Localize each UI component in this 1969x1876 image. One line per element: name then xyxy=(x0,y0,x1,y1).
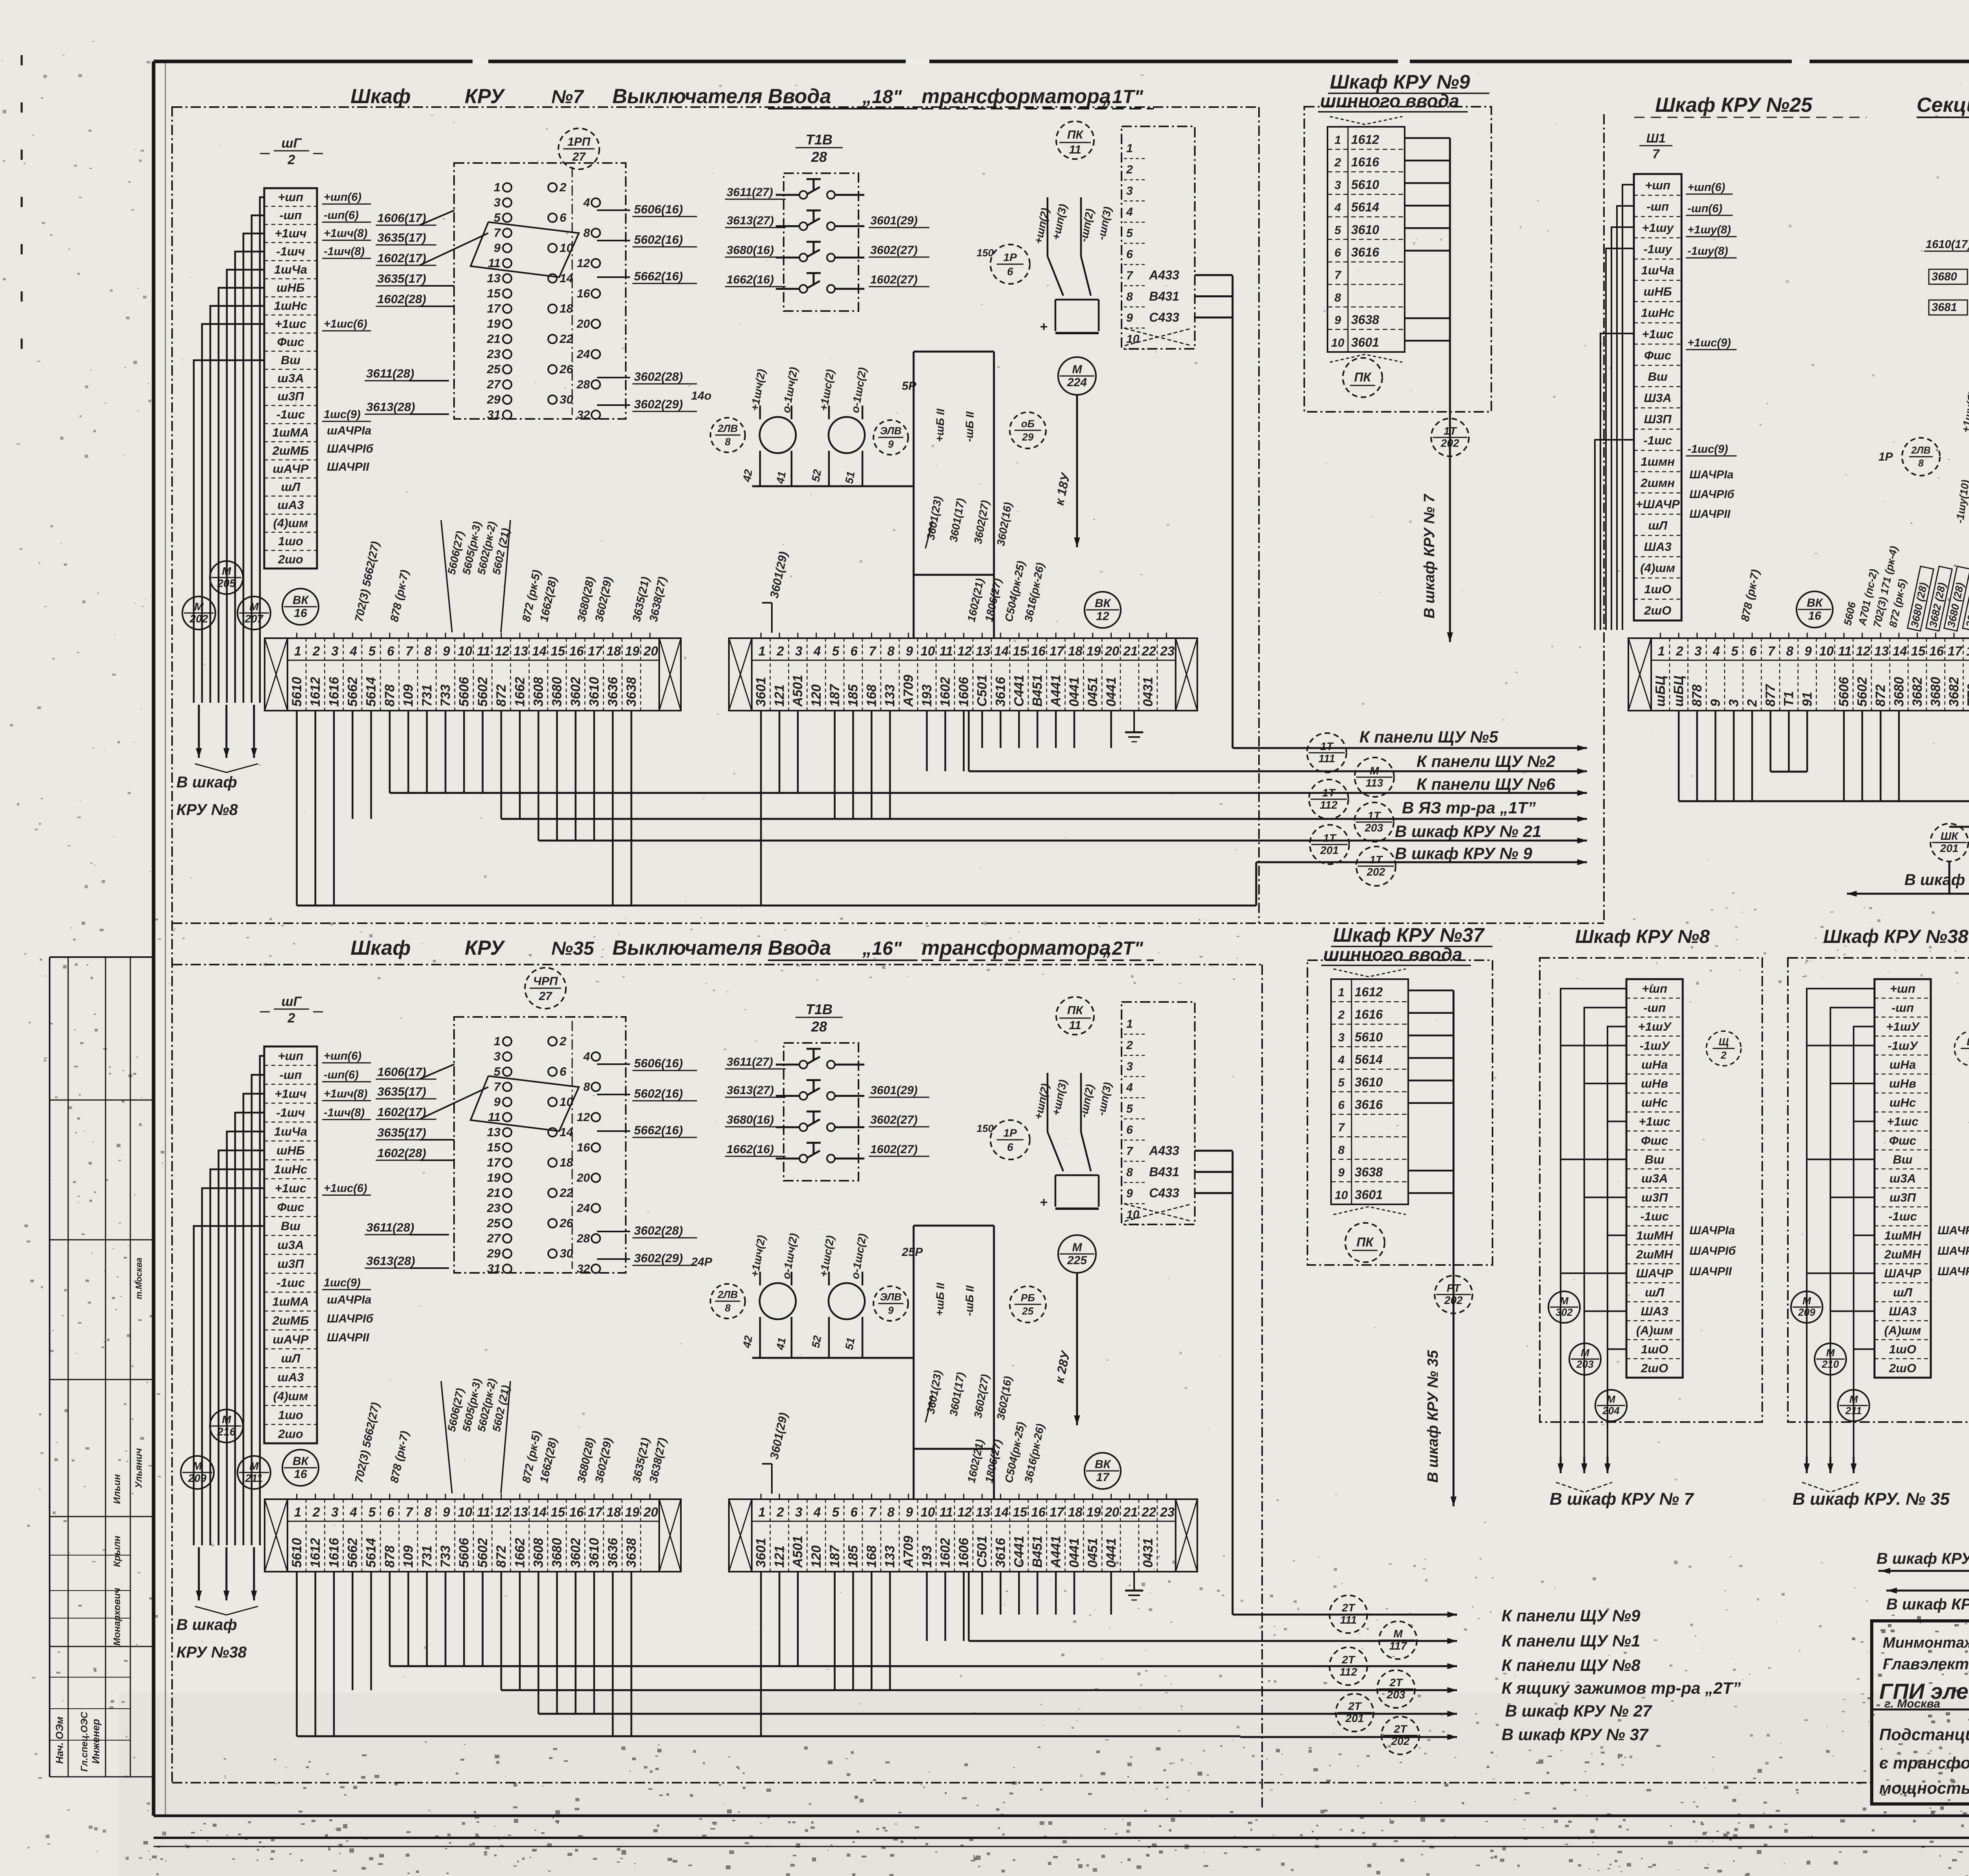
svg-text:КРУ: КРУ xyxy=(465,85,506,108)
relay tag 1РП/27 xyxy=(558,128,599,169)
outgoing arrows and destinations xyxy=(1359,728,1587,865)
table output wires xyxy=(1408,991,1454,1502)
left margin table xyxy=(50,957,152,1777)
svg-text:трансформатора: трансформатора xyxy=(921,85,1111,108)
svg-text:3680: 3680 xyxy=(550,1538,565,1568)
svg-text:5: 5 xyxy=(1335,224,1342,237)
svg-text:10: 10 xyxy=(921,1505,935,1519)
svg-text:с трансформаторами: с трансформаторами xyxy=(1879,1754,1969,1772)
svg-text:В451: В451 xyxy=(1030,1536,1045,1568)
section divider bottom-left top edge xyxy=(172,964,1262,965)
svg-text:0441: 0441 xyxy=(1067,1538,1082,1568)
svg-text:2Т: 2Т xyxy=(1342,1602,1356,1614)
svg-text:18: 18 xyxy=(560,1156,573,1169)
svg-text:202: 202 xyxy=(1444,1294,1463,1306)
svg-text:7: 7 xyxy=(1338,1121,1345,1134)
svg-text:209: 209 xyxy=(188,1472,207,1484)
svg-text:3610: 3610 xyxy=(1351,222,1379,237)
svg-text:8: 8 xyxy=(424,644,432,658)
svg-text:10: 10 xyxy=(921,644,935,658)
svg-text:4: 4 xyxy=(1126,1081,1133,1094)
svg-text:302: 302 xyxy=(1556,1306,1573,1318)
line down with arrow xyxy=(1421,456,1453,642)
svg-text:ШАЧРII: ШАЧРII xyxy=(1937,1265,1969,1278)
svg-text:2: 2 xyxy=(1126,1039,1133,1052)
svg-text:Шкаф КРУ №38: Шкаф КРУ №38 xyxy=(1823,926,1969,947)
svg-text:2Т: 2Т xyxy=(1348,1700,1363,1712)
svg-text:19: 19 xyxy=(1086,1505,1101,1519)
svg-text:91: 91 xyxy=(1800,692,1815,707)
svg-text:+1шч(8): +1шч(8) xyxy=(324,227,367,240)
svg-text:-шп: -шп xyxy=(1643,1001,1666,1015)
svg-text:Т1В: Т1В xyxy=(806,1001,832,1017)
svg-text:1Т: 1Т xyxy=(1320,740,1335,752)
svg-text:2Т: 2Т xyxy=(1342,1654,1356,1666)
svg-text:шБЦ: шБЦ xyxy=(1653,676,1668,707)
svg-text:-1шс: -1шс xyxy=(1888,1209,1917,1223)
relay auxiliary contact block xyxy=(454,163,626,422)
svg-text:3680: 3680 xyxy=(550,677,565,707)
svg-text:Шкаф КРУ №8: Шкаф КРУ №8 xyxy=(1575,926,1710,947)
svg-text:133: 133 xyxy=(883,684,897,707)
svg-text:28: 28 xyxy=(811,1019,827,1035)
svg-text:1616: 1616 xyxy=(1355,1007,1383,1022)
svg-text:1шЧа: 1шЧа xyxy=(1641,263,1674,277)
svg-text:+шп(6): +шп(6) xyxy=(324,1050,362,1063)
svg-text:3682: 3682 xyxy=(1947,677,1962,707)
svg-text:16: 16 xyxy=(1929,644,1944,658)
svg-text:8: 8 xyxy=(887,1505,895,1519)
svg-text:193: 193 xyxy=(920,1545,934,1568)
svg-text:31: 31 xyxy=(487,1262,501,1276)
svg-text:5: 5 xyxy=(1731,644,1739,658)
svg-text:7: 7 xyxy=(869,1505,877,1519)
svg-text:5602: 5602 xyxy=(475,677,490,707)
svg-text:5: 5 xyxy=(832,1505,840,1519)
svg-text:ш3А: ш3А xyxy=(277,1238,304,1252)
svg-text:С433: С433 xyxy=(1149,1186,1179,1200)
svg-text:С433: С433 xyxy=(1149,310,1179,324)
svg-text:5606: 5606 xyxy=(457,676,472,707)
svg-text:К панели ЩУ №2: К панели ЩУ №2 xyxy=(1416,752,1555,770)
svg-text:7: 7 xyxy=(1335,269,1342,282)
svg-text:15: 15 xyxy=(551,1505,565,1519)
svg-text:+1шс: +1шс xyxy=(275,1182,306,1195)
relay block right leads xyxy=(597,202,697,411)
svg-text:3: 3 xyxy=(1126,1060,1133,1073)
label column Шкаф КРУ №8 xyxy=(1626,979,1683,1378)
svg-text:19: 19 xyxy=(1086,644,1101,658)
svg-text:111: 111 xyxy=(1318,752,1335,765)
svg-text:10: 10 xyxy=(560,1095,573,1109)
svg-text:-шп: -шп xyxy=(280,1068,302,1082)
svg-text:Вш: Вш xyxy=(281,1219,300,1233)
svg-text:М: М xyxy=(193,1460,202,1472)
cable designator circles М xyxy=(182,561,271,630)
svg-text:5614: 5614 xyxy=(364,677,379,707)
АЧР labels xyxy=(327,1293,374,1344)
svg-text:А501: А501 xyxy=(790,1536,805,1568)
svg-text:Инженер: Инженер xyxy=(90,1719,102,1764)
svg-text:201: 201 xyxy=(1320,844,1339,856)
svg-text:733: 733 xyxy=(438,1545,453,1568)
svg-text:ПК: ПК xyxy=(1067,1004,1084,1017)
svg-text:28: 28 xyxy=(811,149,827,165)
svg-text:Ш3А: Ш3А xyxy=(1644,391,1672,405)
svg-text:3613(27): 3613(27) xyxy=(727,214,774,227)
ground symbol bottom xyxy=(1125,1572,1143,1600)
svg-text:25Р: 25Р xyxy=(901,1246,923,1259)
svg-text:шЛ: шЛ xyxy=(1648,519,1668,532)
svg-text:РТ: РТ xyxy=(1447,1282,1462,1294)
wire labels above strip 2 xyxy=(762,1411,1047,1494)
svg-text:3636: 3636 xyxy=(605,676,620,707)
svg-text:8: 8 xyxy=(583,1081,590,1094)
svg-text:10: 10 xyxy=(1331,336,1344,349)
svg-text:19: 19 xyxy=(625,1505,640,1519)
svg-text:3602(28): 3602(28) xyxy=(634,370,683,383)
svg-text:16: 16 xyxy=(294,1468,307,1481)
svg-text:12: 12 xyxy=(1096,610,1109,623)
svg-text:1616: 1616 xyxy=(1351,155,1379,169)
svg-text:21: 21 xyxy=(1123,644,1138,658)
КРУ23 bottom wiring xyxy=(1878,1150,1969,1620)
svg-text:1: 1 xyxy=(1335,133,1341,146)
svg-text:Ввода: Ввода xyxy=(768,85,831,108)
svg-text:4: 4 xyxy=(1126,206,1133,219)
svg-text:8: 8 xyxy=(583,227,590,240)
svg-text:К панели ЩУ №1: К панели ЩУ №1 xyxy=(1502,1632,1640,1650)
svg-text:1: 1 xyxy=(494,1034,501,1048)
svg-text:ШАЧРIб: ШАЧРIб xyxy=(327,443,374,456)
svg-text:1: 1 xyxy=(494,180,501,194)
svg-text:10: 10 xyxy=(458,644,472,658)
svg-text:шЛ: шЛ xyxy=(1893,1285,1913,1299)
svg-text:3680(16): 3680(16) xyxy=(727,244,774,257)
coil wires xyxy=(752,406,914,486)
svg-text:1шЧа: 1шЧа xyxy=(274,1125,307,1139)
svg-text:„1Т": „1Т" xyxy=(1102,87,1144,107)
svg-text:Т1: Т1 xyxy=(1782,691,1797,707)
svg-text:12: 12 xyxy=(957,1505,972,1519)
svg-text:-шБ II: -шБ II xyxy=(963,411,976,443)
svg-text:202: 202 xyxy=(1366,866,1385,878)
svg-text:6: 6 xyxy=(1007,1141,1013,1153)
svg-text:3602(27): 3602(27) xyxy=(870,1113,918,1126)
svg-text:1: 1 xyxy=(294,1505,301,1519)
svg-text:18: 18 xyxy=(606,1505,621,1519)
svg-text:К панели ЩУ №5: К панели ЩУ №5 xyxy=(1359,728,1498,746)
svg-text:30: 30 xyxy=(560,393,573,406)
svg-text:10: 10 xyxy=(1335,1189,1348,1202)
svg-text:133: 133 xyxy=(883,1545,897,1568)
svg-text:1РП: 1РП xyxy=(567,135,591,148)
svg-text:3: 3 xyxy=(1726,699,1741,707)
svg-text:шНс: шНс xyxy=(1889,1096,1916,1109)
svg-text:ШАЧРIб: ШАЧРIб xyxy=(1689,1244,1736,1257)
svg-text:+1шУ: +1шУ xyxy=(1886,1020,1920,1033)
svg-text:13: 13 xyxy=(976,1505,990,1519)
svg-text:17: 17 xyxy=(1049,644,1064,658)
svg-text:Щ: Щ xyxy=(1967,1036,1969,1048)
svg-text:1662(16): 1662(16) xyxy=(727,1143,774,1156)
svg-text:4: 4 xyxy=(1338,1054,1345,1067)
svg-text:209: 209 xyxy=(1798,1306,1815,1318)
section header xyxy=(350,937,1154,960)
column annotations КРУ25 xyxy=(1686,181,1737,520)
svg-text:+1шУ: +1шУ xyxy=(1638,1020,1672,1033)
svg-text:9: 9 xyxy=(906,644,913,658)
svg-text:2: 2 xyxy=(1676,644,1683,658)
svg-text:Вш: Вш xyxy=(1645,1153,1665,1167)
svg-text:В шкаф: В шкаф xyxy=(176,1616,237,1633)
svg-text:2шМН: 2шМН xyxy=(1884,1248,1921,1261)
svg-text:-1шч(8): -1шч(8) xyxy=(324,1107,365,1119)
svg-text:+шп(6): +шп(6) xyxy=(1687,181,1725,194)
terminal label column Ш1 xyxy=(264,188,317,569)
svg-text:-шп: -шп xyxy=(1646,200,1669,213)
svg-text:14: 14 xyxy=(1893,644,1907,658)
breaker cabinet wiring box xyxy=(914,352,994,575)
svg-text:2: 2 xyxy=(559,180,566,194)
svg-text:2: 2 xyxy=(1338,1009,1345,1022)
svg-text:Вш: Вш xyxy=(1648,370,1668,383)
terminal strip row 2 (ВК-12) xyxy=(729,1494,1197,1572)
svg-text:3616: 3616 xyxy=(1355,1097,1383,1111)
svg-text:-шп: -шп xyxy=(280,208,302,222)
svg-text:шБЦ: шБЦ xyxy=(1671,676,1686,707)
inner dash-dot border top xyxy=(172,106,1259,108)
svg-text:3601: 3601 xyxy=(754,1538,769,1568)
svg-text:оБ: оБ xyxy=(1021,418,1035,430)
section divider vertical top-middle xyxy=(1258,107,1260,923)
svg-text:+1шс: +1шс xyxy=(1639,1115,1670,1128)
svg-text:5: 5 xyxy=(369,1505,376,1519)
svg-text:1Т: 1Т xyxy=(1322,787,1337,799)
svg-text:17: 17 xyxy=(1948,644,1963,658)
svg-text:ШК: ШК xyxy=(1941,830,1959,842)
svg-text:3613(28): 3613(28) xyxy=(366,400,415,414)
svg-text:27: 27 xyxy=(572,150,586,163)
svg-text:+1шу: +1шу xyxy=(1642,221,1674,235)
svg-text:2Т: 2Т xyxy=(1389,1676,1404,1689)
svg-text:11: 11 xyxy=(477,1505,490,1519)
svg-text:9: 9 xyxy=(443,644,450,658)
svg-text:В431: В431 xyxy=(1149,1165,1179,1179)
svg-text:В шкаф: В шкаф xyxy=(176,774,237,791)
svg-text:ШАЧРIа: ШАЧРIа xyxy=(1937,1224,1969,1237)
svg-text:-1шс: -1шс xyxy=(1640,1209,1669,1223)
svg-text:29: 29 xyxy=(487,393,501,406)
svg-text:ПК: ПК xyxy=(1067,128,1084,141)
svg-text:В шкаф КРУ № 37: В шкаф КРУ № 37 xyxy=(1502,1725,1649,1744)
svg-text:51: 51 xyxy=(843,1337,857,1351)
svg-text:-шБ II: -шБ II xyxy=(963,1285,976,1317)
svg-text:17: 17 xyxy=(487,1156,501,1169)
svg-text:210: 210 xyxy=(1821,1358,1839,1370)
svg-text:1: 1 xyxy=(758,1505,766,1519)
svg-text:6: 6 xyxy=(560,211,567,224)
svg-text:17: 17 xyxy=(588,1505,603,1519)
svg-text:877: 877 xyxy=(1763,683,1778,707)
svg-text:10: 10 xyxy=(458,1505,472,1519)
svg-text:2ЛВ: 2ЛВ xyxy=(717,422,738,434)
svg-text:1: 1 xyxy=(294,644,301,658)
svg-text:1602: 1602 xyxy=(938,677,953,707)
title block object cell xyxy=(1879,1725,1969,1797)
wire labels +шп xyxy=(1032,1078,1114,1120)
ТВ left leads xyxy=(1924,238,1969,315)
svg-text:7: 7 xyxy=(869,644,877,658)
svg-text:19: 19 xyxy=(487,317,501,331)
svg-text:шАЧР: шАЧР xyxy=(273,462,308,476)
svg-text:1: 1 xyxy=(1126,142,1133,155)
outgoing arrows and destinations bottom xyxy=(1418,1606,1741,1744)
svg-text:В шкаф КРУ № 21: В шкаф КРУ № 21 xyxy=(1886,1596,1969,1613)
svg-text:20: 20 xyxy=(577,318,590,331)
svg-text:М: М xyxy=(1802,1295,1811,1307)
svg-text:ВК: ВК xyxy=(1095,597,1112,610)
svg-text:3602(29): 3602(29) xyxy=(634,397,683,411)
svg-text:19: 19 xyxy=(487,1171,501,1185)
wire labels +шп xyxy=(1032,203,1114,245)
svg-text:3680(16): 3680(16) xyxy=(727,1113,774,1126)
svg-text:3602(29): 3602(29) xyxy=(634,1251,683,1265)
svg-text:-1шу(8): -1шу(8) xyxy=(1687,245,1728,257)
svg-text:3602(28): 3602(28) xyxy=(634,1224,683,1237)
coil terminal numbers xyxy=(740,1335,857,1351)
svg-text:Фшс: Фшс xyxy=(277,335,304,349)
svg-text:12: 12 xyxy=(495,644,510,658)
svg-text:112: 112 xyxy=(1320,799,1338,811)
left margin signatures xyxy=(54,1257,144,1772)
svg-text:Шкаф: Шкаф xyxy=(350,85,411,108)
svg-text:150: 150 xyxy=(977,1122,994,1134)
svg-text:5610: 5610 xyxy=(289,1538,304,1568)
svg-text:15: 15 xyxy=(551,644,565,658)
svg-text:М: М xyxy=(1560,1295,1569,1307)
terminal strip row 2 (ВК-12) xyxy=(729,633,1197,711)
svg-text:1602(27): 1602(27) xyxy=(870,1143,918,1156)
svg-text:872: 872 xyxy=(1873,684,1888,707)
svg-text:3681: 3681 xyxy=(1932,301,1957,314)
svg-text:Фшс: Фшс xyxy=(1641,1133,1668,1147)
svg-text:12: 12 xyxy=(577,257,590,270)
svg-text:2Т: 2Т xyxy=(1394,1723,1408,1735)
svg-text:211: 211 xyxy=(1845,1405,1861,1417)
box loop verticals to strip bottom xyxy=(914,1449,994,1499)
svg-text:1616: 1616 xyxy=(326,676,341,707)
svg-text:№35: №35 xyxy=(551,938,595,959)
svg-text:203: 203 xyxy=(1365,822,1383,834)
wire numbers to relay block xyxy=(376,1064,488,1160)
svg-text:52: 52 xyxy=(809,1335,823,1349)
svg-text:23: 23 xyxy=(487,1201,501,1215)
header КРУ №25 xyxy=(1634,94,1969,117)
svg-text:шЛ: шЛ xyxy=(281,480,301,494)
svg-text:+ШАЧР: +ШАЧР xyxy=(1636,497,1680,511)
svg-text:В шкаф КРУ № 27: В шкаф КРУ № 27 xyxy=(1876,1550,1969,1567)
svg-text:+: + xyxy=(1040,1195,1048,1210)
svg-text:3613(28): 3613(28) xyxy=(366,1254,415,1268)
svg-text:М: М xyxy=(222,1413,231,1426)
svg-text:М: М xyxy=(1393,1628,1403,1640)
svg-text:168: 168 xyxy=(864,684,879,707)
svg-text:1шМН: 1шМН xyxy=(1636,1228,1673,1242)
svg-text:г. Москва: г. Москва xyxy=(1884,1697,1940,1710)
bus tag Ш1/7 xyxy=(1639,131,1672,161)
svg-text:-шп: -шп xyxy=(1891,1001,1914,1015)
svg-text:+1шч: +1шч xyxy=(275,226,307,240)
svg-text:1шНс: 1шНс xyxy=(274,1163,307,1176)
svg-text:1662: 1662 xyxy=(512,677,527,707)
table output wires xyxy=(1405,138,1450,638)
svg-text:9: 9 xyxy=(1708,699,1723,707)
svg-text:5: 5 xyxy=(1126,227,1133,240)
svg-text:К панели ЩУ №6: К панели ЩУ №6 xyxy=(1416,775,1556,793)
circle оБ/29 xyxy=(1010,412,1046,448)
svg-text:150: 150 xyxy=(977,247,994,259)
svg-text:(4)шм: (4)шм xyxy=(1640,561,1675,575)
svg-text:ПК: ПК xyxy=(1354,370,1372,384)
svg-text:ВК: ВК xyxy=(293,594,310,607)
svg-text:„18": „18" xyxy=(862,87,902,107)
limit switch block Т1В/28 xyxy=(776,131,864,311)
svg-text:17: 17 xyxy=(487,302,501,315)
svg-text:ШАЧРII: ШАЧРII xyxy=(1689,1265,1732,1278)
wire to ЯЗ arrow xyxy=(1052,1273,1080,1425)
svg-text:-шп(6): -шп(6) xyxy=(324,209,359,222)
svg-text:24: 24 xyxy=(577,348,590,361)
svg-text:ш3А: ш3А xyxy=(277,371,304,385)
svg-text:8: 8 xyxy=(1918,458,1924,469)
svg-text:+1шу(8): +1шу(8) xyxy=(1687,224,1731,236)
svg-text:5662: 5662 xyxy=(345,677,360,707)
svg-text:872: 872 xyxy=(494,684,509,707)
svg-text:16: 16 xyxy=(577,287,590,300)
bottom dash-dot border xyxy=(172,1782,1871,1783)
svg-text:21: 21 xyxy=(1123,1505,1138,1519)
svg-text:ЧРП: ЧРП xyxy=(533,975,558,988)
svg-text:С501: С501 xyxy=(975,1536,990,1568)
svg-text:+шп: +шп xyxy=(278,1049,304,1063)
ПК circle xyxy=(1343,358,1382,397)
svg-text:16: 16 xyxy=(294,607,307,620)
svg-text:872: 872 xyxy=(494,1545,509,1568)
svg-text:6: 6 xyxy=(1335,246,1341,259)
svg-text:0441: 0441 xyxy=(1104,677,1119,707)
svg-text:М: М xyxy=(222,565,231,577)
svg-text:202: 202 xyxy=(1441,437,1459,449)
svg-text:878: 878 xyxy=(382,1545,397,1568)
svg-text:9: 9 xyxy=(1338,1166,1345,1179)
svg-text:1610(17): 1610(17) xyxy=(1926,238,1969,251)
svg-text:3601: 3601 xyxy=(1355,1187,1383,1202)
svg-text:А441: А441 xyxy=(1048,1536,1063,1568)
header Шкаф КРУ №9 xyxy=(1318,71,1489,112)
svg-text:+1шч(8): +1шч(8) xyxy=(324,1088,367,1100)
svg-text:2: 2 xyxy=(1126,163,1133,176)
svg-text:18: 18 xyxy=(1068,1505,1083,1519)
svg-text:27: 27 xyxy=(538,990,553,1003)
terminal strip row 1 (ВК-16) xyxy=(265,1494,681,1572)
svg-text:9: 9 xyxy=(494,1095,501,1109)
svg-text:М: М xyxy=(1581,1347,1590,1359)
svg-text:13: 13 xyxy=(514,1505,528,1519)
line down with arrow xyxy=(1425,1313,1457,1506)
svg-text:1Т: 1Т xyxy=(1444,425,1458,437)
svg-text:2шМН: 2шМН xyxy=(1636,1248,1673,1261)
